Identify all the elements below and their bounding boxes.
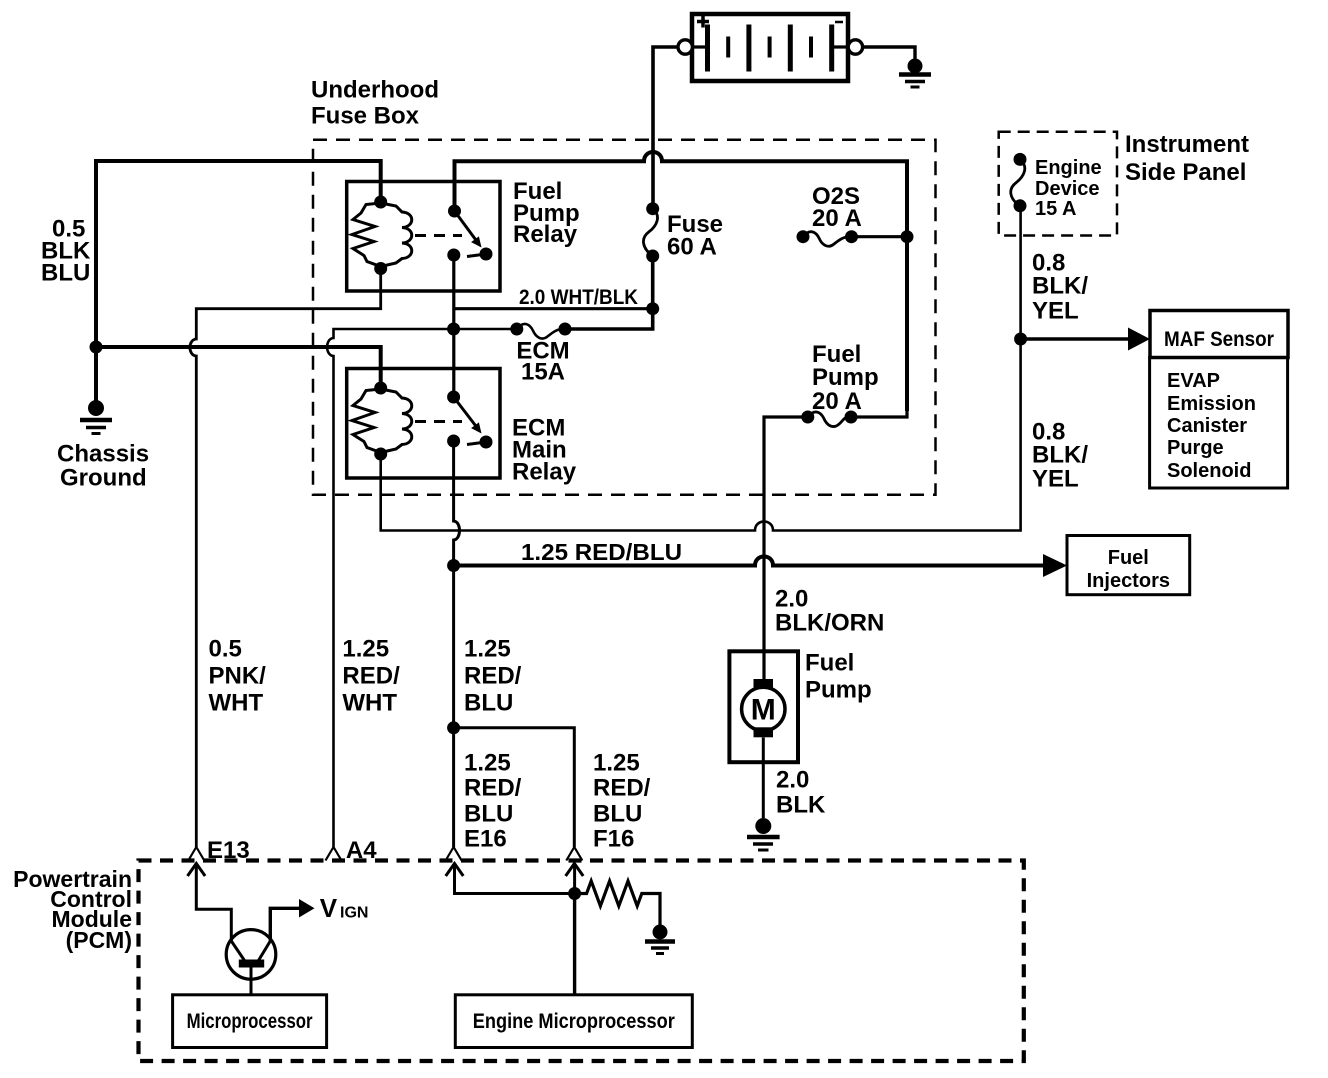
svg-text:Underhood: Underhood: [311, 77, 439, 104]
battery negative terminal: [848, 40, 862, 54]
battery positive terminal: [678, 40, 692, 54]
underhood fuse box boundary: [313, 140, 936, 495]
svg-text:Instrument: Instrument: [1125, 131, 1249, 158]
wire 2.0 WHT/BLK from relay switch down and right: [452, 255, 455, 397]
svg-text:V: V: [320, 893, 338, 923]
svg-text:BLK/: BLK/: [1032, 442, 1088, 469]
svg-text:PNK/: PNK/: [209, 663, 267, 690]
svg-text:YEL: YEL: [1032, 466, 1079, 493]
wire transistor collector to V IGN: [270, 908, 300, 941]
node E16/F16 junction: [447, 721, 460, 734]
svg-text:BLK: BLK: [776, 792, 826, 819]
engine device fuse boundary (instrument side panel): [999, 132, 1117, 236]
wire E16 to junction: [455, 865, 575, 894]
svg-text:RED/: RED/: [342, 663, 400, 690]
node chassis junction: [90, 341, 103, 354]
svg-text:WHT: WHT: [342, 690, 397, 717]
svg-text:F16: F16: [593, 826, 634, 853]
microprocessor box: [173, 995, 327, 1048]
svg-text:1.25: 1.25: [593, 750, 640, 777]
connector E13: [188, 847, 204, 861]
fuse engine device 15A: [1011, 153, 1027, 212]
svg-text:Relay: Relay: [513, 221, 578, 248]
node 2.0 WHT/BLK junction: [646, 302, 659, 315]
svg-text:Fuse Box: Fuse Box: [311, 103, 420, 130]
svg-text:Pump: Pump: [805, 677, 872, 704]
svg-text:1.25: 1.25: [464, 750, 511, 777]
svg-text:MAF Sensor: MAF Sensor: [1164, 328, 1274, 351]
node O2S junction: [901, 230, 914, 243]
wire fuel pump relay switch feed from top rail: [455, 152, 908, 411]
ground fuel pump: [747, 818, 780, 850]
svg-text:2.0 WHT/BLK: 2.0 WHT/BLK: [519, 286, 638, 309]
svg-text:BLU: BLU: [464, 690, 513, 717]
svg-text:Device: Device: [1035, 178, 1100, 200]
svg-text:1.25: 1.25: [464, 636, 511, 663]
svg-text:EVAP: EVAP: [1167, 370, 1220, 392]
wire chassis junction to ECM main relay coil: [96, 347, 381, 388]
wire ECM relay switch output down to E16: [454, 441, 460, 847]
connector A4: [326, 847, 342, 861]
EVAP solenoid box: [1150, 358, 1288, 489]
svg-text:YEL: YEL: [1032, 298, 1079, 325]
wire fuel pump relay coil return to E13: [190, 269, 381, 848]
wire ECM relay coil bottom to engine device fuse: [381, 206, 1021, 531]
svg-text:Engine: Engine: [1035, 157, 1102, 179]
svg-text:Ground: Ground: [60, 465, 147, 492]
relay K1 coil: [352, 203, 381, 267]
svg-text:20 A: 20 A: [812, 388, 862, 415]
pin arrow E16: [446, 864, 464, 877]
svg-text:M: M: [751, 694, 776, 727]
svg-text:Fuel: Fuel: [1108, 547, 1149, 569]
relay K2 dashed actuator link: [415, 420, 462, 423]
svg-text:60 A: 60 A: [667, 234, 717, 261]
pin arrow F16: [566, 864, 584, 877]
relay K2 coil: [352, 389, 381, 453]
fuse O2S 20A: [797, 230, 908, 246]
svg-text:Pump: Pump: [812, 364, 879, 391]
ground battery: [899, 59, 931, 88]
svg-text:2.0: 2.0: [775, 586, 808, 613]
wire ECM 15A fuse to A4 drop: [327, 329, 517, 847]
svg-text:IGN: IGN: [340, 905, 368, 922]
svg-text:RED/: RED/: [464, 775, 522, 802]
fuel pump relay K1: [347, 182, 500, 292]
wire 0.5 BLK BLU: chassis drop and top feed to fuel pump relay coil: [96, 161, 381, 401]
ground resistor: [645, 925, 675, 954]
connector E16: [446, 847, 462, 861]
svg-text:Chassis: Chassis: [57, 441, 149, 468]
wire E13 to transistor: [196, 865, 231, 941]
MAF sensor box: [1150, 311, 1288, 358]
ECM main relay K2: [347, 369, 500, 479]
svg-text:RED/: RED/: [593, 775, 651, 802]
svg-text:(PCM): (PCM): [66, 927, 132, 953]
node 1.25 RED/BLU junction: [447, 559, 460, 572]
svg-text:15A: 15A: [521, 359, 565, 386]
svg-text:Solenoid: Solenoid: [1167, 460, 1251, 482]
svg-text:Engine Microprocessor: Engine Microprocessor: [473, 1010, 675, 1033]
svg-text:Purge: Purge: [1167, 437, 1224, 459]
wire F16 to junction: [573, 865, 576, 894]
wire arrow to MAF sensor: [1021, 337, 1130, 340]
svg-text:E16: E16: [464, 826, 507, 853]
wire battery positive feed down to fuse 60A: [653, 47, 678, 203]
fuse fuel pump 20A: [801, 411, 907, 427]
wire fuel pump to ground: [762, 738, 765, 819]
fuel injectors box: [1067, 536, 1190, 595]
svg-text:Emission: Emission: [1167, 393, 1256, 415]
svg-text:Side Panel: Side Panel: [1125, 159, 1246, 186]
svg-text:BLU: BLU: [593, 801, 642, 828]
svg-text:1.25 RED/BLU: 1.25 RED/BLU: [521, 539, 682, 565]
svg-text:20 A: 20 A: [812, 205, 862, 232]
svg-text:WHT: WHT: [209, 690, 264, 717]
svg-text:Canister: Canister: [1167, 415, 1247, 437]
node PCM junction: [568, 887, 581, 900]
relay K2 switch: [447, 391, 460, 404]
node ECM15A switch-feed junction: [447, 323, 460, 336]
svg-text:0.5: 0.5: [209, 636, 242, 663]
node MAF junction: [1014, 333, 1027, 346]
pin arrow E13: [188, 864, 206, 877]
wire transistor base to microprocessor: [250, 968, 253, 995]
battery B1: [692, 14, 848, 81]
engine microprocessor box: [455, 995, 692, 1048]
relay K1 dashed actuator link: [415, 234, 462, 237]
svg-text:Relay: Relay: [512, 459, 577, 486]
wire battery negative to ground: [863, 47, 915, 60]
svg-text:1.25: 1.25: [342, 636, 389, 663]
svg-text:Microprocessor: Microprocessor: [187, 1010, 313, 1033]
transistor Q1: [226, 930, 276, 980]
fuse 60A: [643, 202, 659, 262]
wire F16 branch: [454, 728, 575, 847]
wire fuse 60A to ECM 15A fuse: [565, 256, 653, 329]
PCM boundary: [139, 861, 1024, 1062]
fuse ECM 15A: [510, 323, 571, 339]
svg-text:BLU: BLU: [464, 801, 513, 828]
svg-text:15 A: 15 A: [1035, 198, 1077, 220]
svg-text:BLK/ORN: BLK/ORN: [775, 610, 884, 637]
chassis ground symbol: [80, 400, 112, 434]
wire fuel pump fuse to fuel pump: [764, 417, 808, 680]
fuel pump M1: [729, 651, 798, 762]
resistor R1: [575, 881, 660, 925]
wire junction to engine microprocessor: [573, 894, 576, 995]
wire 1.25 RED/BLU to fuel injectors: [454, 557, 1045, 566]
svg-text:BLK/: BLK/: [1032, 273, 1088, 300]
svg-text:Fuel: Fuel: [805, 650, 854, 677]
connector F16: [566, 847, 582, 861]
svg-text:2.0: 2.0: [776, 767, 809, 794]
svg-text:RED/: RED/: [464, 663, 522, 690]
relay K1 switch: [448, 205, 461, 218]
svg-text:Injectors: Injectors: [1087, 570, 1170, 592]
svg-text:BLU: BLU: [41, 260, 90, 287]
